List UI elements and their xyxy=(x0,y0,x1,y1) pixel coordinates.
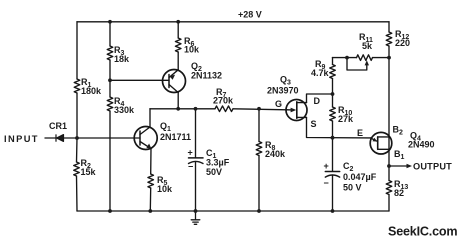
svg-text:82: 82 xyxy=(394,188,404,198)
node Q2 collector / signal xyxy=(176,107,180,111)
wire C2 bottom to ground rail xyxy=(332,175,334,211)
wire R4 bottom to ground rail xyxy=(109,111,111,211)
wire R6 to Q2 emitter xyxy=(177,52,179,70)
node R11 R12 xyxy=(387,56,391,60)
svg-text:2N1132: 2N1132 xyxy=(191,71,222,81)
node Q3 drain xyxy=(331,92,335,96)
wire R3 to Q2 base node xyxy=(109,60,111,97)
resistor R10 xyxy=(330,107,336,121)
svg-text:+: + xyxy=(324,161,329,171)
svg-text:INPUT: INPUT xyxy=(4,134,39,144)
transistor Q4 2N490 UJT xyxy=(370,132,392,154)
resistor R5 xyxy=(148,174,154,188)
wire R8 branch xyxy=(258,109,260,142)
wire ground rail xyxy=(77,210,389,212)
resistor R13 xyxy=(386,181,392,195)
svg-text:G: G xyxy=(275,99,282,109)
wire C1 branch xyxy=(195,109,197,158)
svg-text:10k: 10k xyxy=(157,184,173,194)
wire drain node to R10 xyxy=(332,94,334,107)
wire output arrow xyxy=(389,165,409,167)
resistor R4 xyxy=(107,97,113,111)
svg-text:−: − xyxy=(324,178,329,188)
node R11 wiper tie xyxy=(345,56,349,60)
wire R13 bottom corner xyxy=(388,195,390,212)
node ground R8 xyxy=(257,209,261,213)
wire C1 bottom to ground rail xyxy=(195,162,197,212)
wire Q4 B1 down to output node xyxy=(388,137,390,166)
svg-text:5k: 5k xyxy=(362,41,373,51)
wire R5 bottom to ground rail xyxy=(149,188,151,211)
wire Q1 emitter to R5 xyxy=(150,149,152,174)
wire pot line R11 xyxy=(333,57,357,59)
svg-text:D: D xyxy=(314,96,321,106)
svg-text:180k: 180k xyxy=(81,86,102,96)
svg-text:4.7k: 4.7k xyxy=(311,68,330,78)
svg-text:270k: 270k xyxy=(213,96,234,106)
resistor R3 xyxy=(107,46,113,60)
transistor Q1 2N1711 NPN xyxy=(134,127,157,150)
resistor R1 xyxy=(74,79,80,93)
resistor R7 xyxy=(215,106,233,112)
capacitor C1 xyxy=(189,158,204,164)
svg-text:10k: 10k xyxy=(184,45,200,55)
svg-text:+: + xyxy=(188,148,193,158)
node ground C1 xyxy=(194,209,198,213)
wire R8 bottom to ground rail xyxy=(258,156,260,212)
wire R9 bottom to drain node xyxy=(332,79,334,95)
node ground C2 xyxy=(331,209,335,213)
svg-text:OUTPUT: OUTPUT xyxy=(413,162,452,172)
node output xyxy=(387,164,391,168)
wire input node to R2 xyxy=(76,138,79,162)
node Q2 base xyxy=(108,78,112,82)
wire R2 bottom to ground rail xyxy=(76,176,79,211)
node ground R5 xyxy=(148,209,152,213)
node input xyxy=(75,136,79,140)
svg-text:18k: 18k xyxy=(114,54,130,64)
svg-text:2N1711: 2N1711 xyxy=(160,132,191,142)
wire R12 from rail xyxy=(388,22,390,32)
wire input lead xyxy=(45,137,56,139)
svg-text:−: − xyxy=(188,162,193,172)
diode CR1 xyxy=(56,135,64,142)
wire R7 to Q3 gate xyxy=(233,109,287,110)
transistor Q2 2N1132 PNP xyxy=(163,70,186,93)
svg-text:CR1: CR1 xyxy=(49,121,67,131)
svg-text:+28 V: +28 V xyxy=(238,10,262,20)
resistor R2 xyxy=(74,162,80,176)
node C1 top xyxy=(194,107,198,111)
ground symbol xyxy=(191,211,200,224)
svg-text:50 V: 50 V xyxy=(343,183,362,193)
wire R12 bottom to Q4 B2 xyxy=(388,46,390,137)
resistor R6 xyxy=(175,38,181,52)
svg-text:220: 220 xyxy=(395,38,410,48)
wire signal line to R7 xyxy=(150,108,215,110)
svg-text:50V: 50V xyxy=(206,167,222,177)
svg-text:S: S xyxy=(311,119,317,129)
wire divider branch from rail xyxy=(109,22,111,46)
wire output node to R13 xyxy=(388,166,390,181)
node ground R4 xyxy=(108,209,112,213)
wire Q2 collector down xyxy=(177,93,179,109)
svg-text:240k: 240k xyxy=(265,149,286,159)
svg-text:330k: 330k xyxy=(114,105,135,115)
wire left branch top (rail to R1) xyxy=(76,22,78,79)
capacitor C2 xyxy=(325,172,339,178)
svg-text:27k: 27k xyxy=(338,114,354,124)
node Q3 source / C2 xyxy=(331,136,335,140)
resistor R12 xyxy=(386,32,392,46)
wire C2 branch xyxy=(332,138,334,172)
wire Q3 drain up xyxy=(307,94,333,103)
wire R1 bottom to input node xyxy=(76,93,78,138)
svg-text:2N490: 2N490 xyxy=(408,140,435,150)
resistor R9 xyxy=(330,65,336,79)
wire Q1 collector up to signal line xyxy=(149,109,151,127)
resistor R11 potentiometer 5k xyxy=(347,55,373,70)
resistor R8 xyxy=(256,142,262,156)
svg-text:E: E xyxy=(357,128,363,138)
wire R9 top corner xyxy=(332,58,334,65)
wire Q1 base xyxy=(77,137,140,139)
wire diode to input node xyxy=(64,137,78,139)
wire R10 bottom to source node xyxy=(332,121,334,138)
node R8 top xyxy=(257,107,261,111)
transistor Q3 2N3970 JFET xyxy=(286,100,307,121)
wire Q2 base xyxy=(110,79,169,81)
svg-text:15k: 15k xyxy=(81,167,97,177)
svg-text:3.3µF: 3.3µF xyxy=(206,158,230,168)
svg-text:SeekIC.com: SeekIC.com xyxy=(388,225,457,239)
svg-text:0.047µF: 0.047µF xyxy=(343,172,377,182)
node rail R3 xyxy=(108,20,112,24)
wire R6 branch from rail xyxy=(177,22,179,38)
wire +28V top rail xyxy=(77,21,389,23)
svg-text:2N3970: 2N3970 xyxy=(267,86,299,96)
wire Q3 source down to source node xyxy=(307,117,371,137)
wire R11 to R12 branch xyxy=(373,57,390,59)
node rail R6 xyxy=(176,20,180,24)
